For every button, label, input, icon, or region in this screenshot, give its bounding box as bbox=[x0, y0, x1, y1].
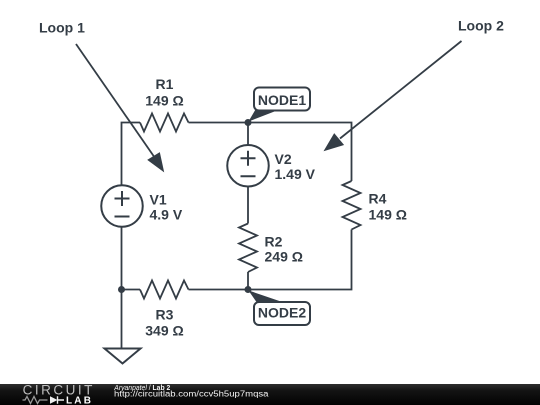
svg-text:R1: R1 bbox=[156, 76, 174, 92]
wire: NODE1 junction down to V2 top bbox=[247, 123, 249, 146]
node NODE1 junction dot bbox=[245, 119, 252, 126]
annotation Loop 2 label bbox=[458, 18, 504, 34]
wire: bottom-left junction to R3 left lead bbox=[122, 289, 141, 291]
svg-text:LAB: LAB bbox=[66, 396, 93, 405]
resistor R1 bbox=[140, 114, 189, 132]
wire: V1 bottom to bottom-left junction bbox=[121, 227, 123, 290]
footer title text bbox=[113, 383, 170, 392]
svg-text:Loop 1: Loop 1 bbox=[39, 20, 85, 36]
value 149 Ω (R4) bbox=[369, 207, 407, 223]
label R3 bbox=[156, 306, 174, 322]
wire: R2 bottom to NODE2 junction bbox=[247, 272, 249, 290]
wire: ground lead bbox=[121, 290, 123, 349]
svg-text:R2: R2 bbox=[265, 234, 283, 250]
wire: NODE1 to top-right corner down to R4 top bbox=[248, 123, 352, 182]
svg-text:R4: R4 bbox=[369, 191, 387, 207]
value 249 Ω (R2) bbox=[265, 249, 303, 265]
svg-text:149 Ω: 149 Ω bbox=[369, 207, 407, 223]
node NODE2 callout bbox=[248, 290, 310, 325]
svg-text:149 Ω: 149 Ω bbox=[145, 92, 183, 108]
resistor R2 bbox=[239, 224, 257, 273]
wire: R1 right lead to NODE1 junction bbox=[189, 122, 249, 124]
value 4.9 V (V1) bbox=[150, 207, 183, 223]
svg-text:NODE2: NODE2 bbox=[258, 305, 306, 321]
value 149 Ω (R1) bbox=[145, 92, 183, 108]
svg-text:349 Ω: 349 Ω bbox=[145, 322, 183, 338]
wire: R3 right lead to NODE2 junction bbox=[189, 289, 249, 291]
node NODE1 callout bbox=[248, 88, 310, 122]
resistor R4 bbox=[343, 181, 361, 230]
svg-text:249 Ω: 249 Ω bbox=[265, 249, 303, 265]
value 349 Ω (R3) bbox=[145, 322, 183, 338]
svg-text:Loop 2: Loop 2 bbox=[458, 18, 504, 34]
node junction dot (bottom-left) bbox=[118, 286, 125, 293]
svg-text:R3: R3 bbox=[156, 306, 174, 322]
svg-text:NODE1: NODE1 bbox=[258, 92, 306, 108]
svg-text:1.49 V: 1.49 V bbox=[275, 166, 316, 182]
wire: top-left corner (left rail top to R1 left lead) bbox=[122, 123, 141, 186]
wire: V2 bottom to R2 top bbox=[247, 187, 249, 224]
voltage source V2 bbox=[227, 145, 269, 187]
node NODE2 junction dot bbox=[245, 286, 252, 293]
svg-text:V2: V2 bbox=[275, 151, 292, 167]
svg-text:V1: V1 bbox=[150, 192, 167, 208]
resistor R3 bbox=[140, 281, 189, 299]
ground bbox=[105, 349, 141, 364]
label V2 bbox=[275, 151, 292, 167]
label R4 bbox=[369, 191, 387, 207]
voltage source V1 bbox=[101, 185, 143, 227]
svg-text:http://circuitlab.com/ccv5h5up: http://circuitlab.com/ccv5h5up7mqsa bbox=[114, 390, 269, 399]
annotation Loop 1 arrow bbox=[76, 44, 164, 172]
value 1.49 V (V2) bbox=[275, 166, 316, 182]
footer CircuitLab logo bbox=[23, 383, 95, 405]
annotation Loop 1 label bbox=[39, 20, 85, 36]
footer bar bbox=[0, 384, 540, 405]
label R1 bbox=[156, 76, 174, 92]
wire: R4 bottom to bottom-right corner to NODE2 bbox=[248, 230, 352, 290]
label R2 bbox=[265, 234, 283, 250]
label V1 bbox=[150, 192, 167, 208]
footer url text bbox=[114, 390, 269, 399]
svg-text:4.9 V: 4.9 V bbox=[150, 207, 183, 223]
annotation Loop 2 arrow bbox=[324, 41, 462, 151]
